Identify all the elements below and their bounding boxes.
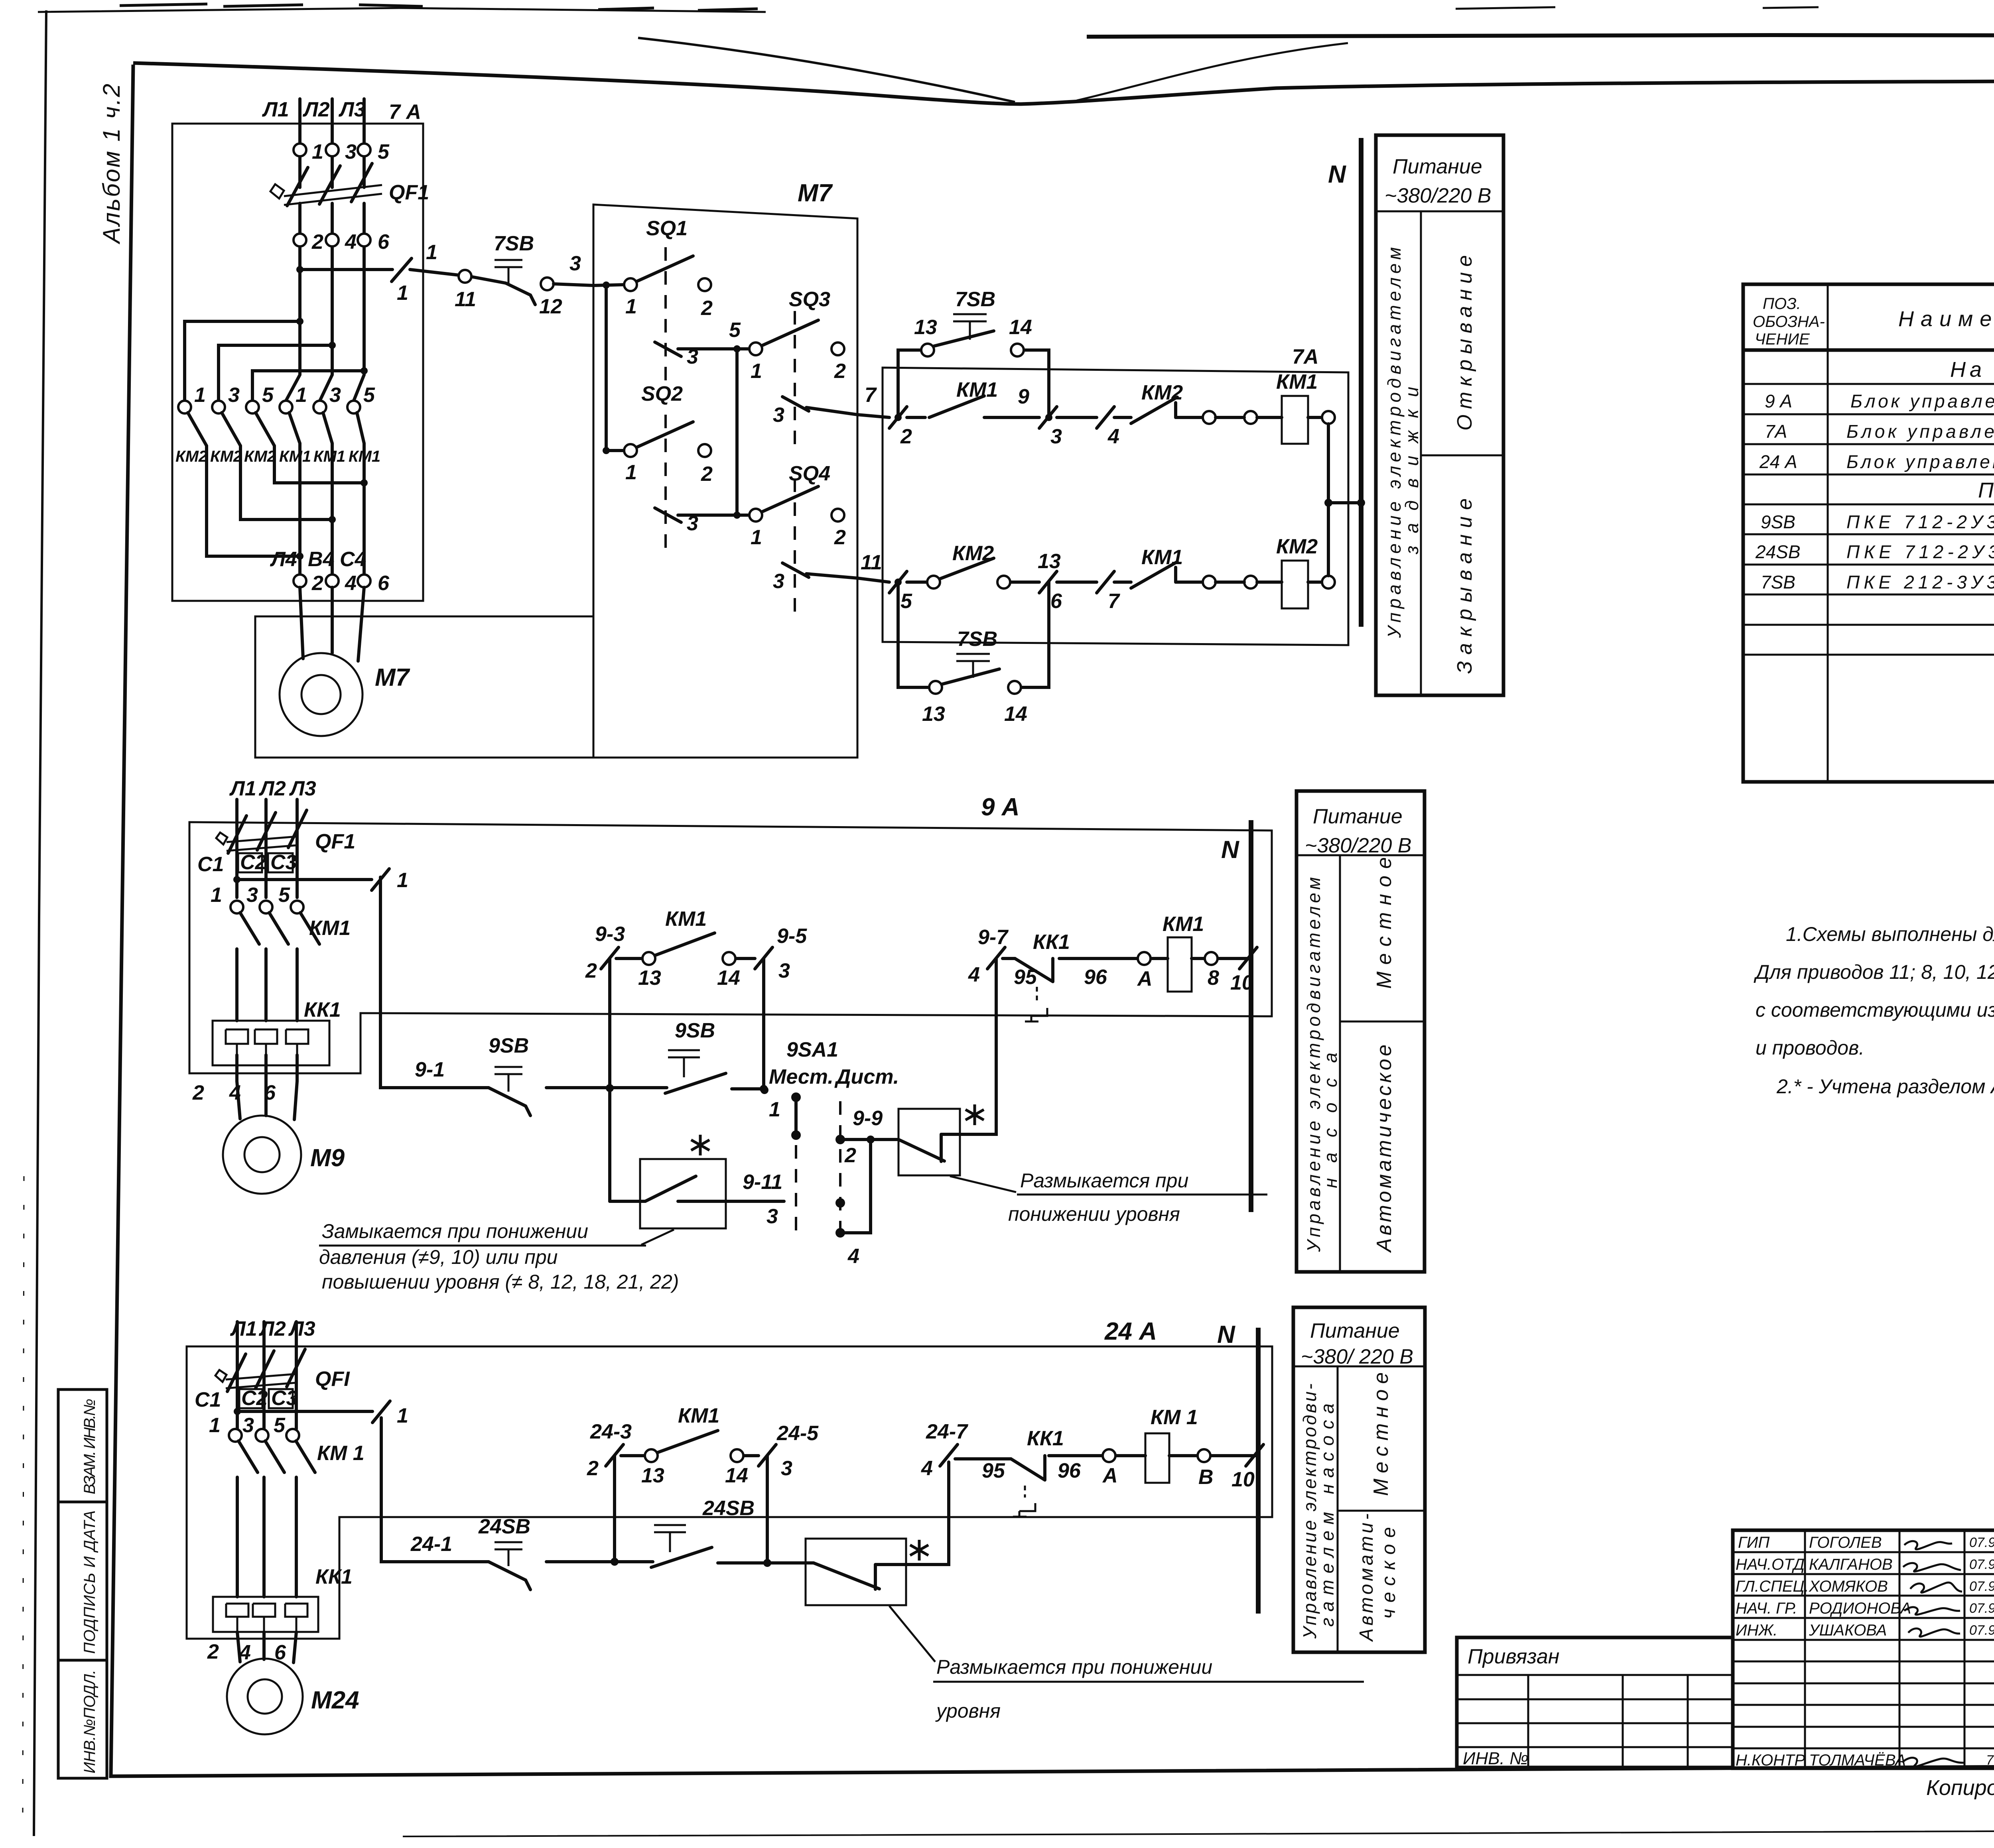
svg-text:6: 6 xyxy=(1050,590,1062,613)
svg-text:~380/220 В: ~380/220 В xyxy=(1305,834,1411,857)
svg-text:95: 95 xyxy=(982,1459,1005,1482)
svg-text:9SА1: 9SА1 xyxy=(786,1038,838,1061)
svg-text:1: 1 xyxy=(625,461,637,484)
svg-text:13: 13 xyxy=(638,966,661,990)
svg-text:2.* - Учтена разделом АВК.: 2.* - Учтена разделом АВК. xyxy=(1776,1075,1994,1098)
svg-text:1.Схемы выполнены для приво: 1.Схемы выполнены для приводов 7, 9, 24. xyxy=(1786,923,1994,945)
contactor main contacts bank KM2/KM1 xyxy=(175,318,390,595)
contact slash mark 1 xyxy=(392,258,412,281)
svg-text:2: 2 xyxy=(207,1640,219,1663)
svg-text:2: 2 xyxy=(900,425,912,448)
svg-text:14: 14 xyxy=(717,966,740,990)
svg-text:Размыкается при понижении: Размыкается при понижении xyxy=(936,1656,1212,1678)
svg-text:N: N xyxy=(1221,836,1239,864)
svg-text:2: 2 xyxy=(834,360,846,383)
coil row right part xyxy=(960,958,1251,1134)
svg-text:7SB: 7SB xyxy=(957,628,997,651)
svg-text:и проводов.: и проводов. xyxy=(1756,1037,1864,1059)
contact slash 2 xyxy=(889,407,907,428)
svg-text:Питание: Питание xyxy=(1313,805,1403,828)
motor M7 xyxy=(280,587,410,736)
svg-text:95: 95 xyxy=(1014,966,1037,989)
svg-text:1: 1 xyxy=(397,869,408,892)
svg-text:С4: С4 xyxy=(340,548,366,571)
svg-text:1: 1 xyxy=(751,526,762,549)
coil row right part xyxy=(955,1456,1258,1459)
svg-text:Л3: Л3 xyxy=(289,777,316,800)
contact slash mark 1 xyxy=(372,869,389,890)
neutral bus N (24А) xyxy=(1256,1328,1261,1614)
svg-text:11: 11 xyxy=(861,551,882,574)
svg-text:з а д в и ж к и: з а д в и ж к и xyxy=(1401,387,1422,555)
svg-text:С2: С2 xyxy=(240,851,267,874)
svg-text:Для приводов 11; 8, 10, 12,: Для приводов 11; 8, 10, 12, 18, 21, 22; … xyxy=(1754,961,1994,983)
wire SQ2 to SQ4 with riser xyxy=(678,349,750,515)
svg-text:КМ1: КМ1 xyxy=(665,907,707,931)
svg-text:7: 7 xyxy=(1108,590,1120,613)
svg-text:КМ 1: КМ 1 xyxy=(1151,1406,1198,1429)
svg-text:НАЧ.ОТД: НАЧ.ОТД xyxy=(1736,1556,1805,1573)
svg-text:13: 13 xyxy=(1038,550,1061,573)
svg-text:КМ2: КМ2 xyxy=(1141,381,1183,404)
svg-text:7А: 7А xyxy=(1765,421,1787,442)
junction dots on rail xyxy=(606,1084,614,1092)
svg-text:КМ2: КМ2 xyxy=(175,448,207,465)
cross wire c xyxy=(252,371,364,401)
svg-text:УШАКОВА: УШАКОВА xyxy=(1809,1622,1887,1639)
svg-text:Наименование: Наименование xyxy=(1898,307,1994,331)
copied-by line xyxy=(1926,1765,1994,1807)
circuit breaker QF1 xyxy=(284,185,382,205)
svg-text:13: 13 xyxy=(914,316,937,339)
terminal circle В xyxy=(1198,1449,1210,1462)
svg-text:24-3: 24-3 xyxy=(590,1420,632,1443)
svg-text:2: 2 xyxy=(585,959,597,982)
contact KM1 pole2 xyxy=(313,401,326,413)
svg-text:КК1: КК1 xyxy=(1033,931,1070,954)
svg-text:QF1: QF1 xyxy=(315,830,355,853)
svg-text:6: 6 xyxy=(378,572,390,595)
svg-text:24-1: 24-1 xyxy=(410,1533,452,1556)
contact slash 10 xyxy=(1246,1445,1263,1466)
svg-text:3: 3 xyxy=(778,959,790,982)
wire 11 out of box xyxy=(806,574,857,578)
svg-text:КМ1: КМ1 xyxy=(1163,913,1204,936)
svg-text:Н.КОНТР: Н.КОНТР xyxy=(1736,1752,1805,1769)
svg-text:3: 3 xyxy=(329,384,341,407)
svg-text:07.91: 07.91 xyxy=(1969,1601,1994,1616)
svg-text:24SВ: 24SВ xyxy=(702,1497,755,1520)
svg-text:Л1: Л1 xyxy=(229,777,256,800)
level switch box (opens on level drop, 9А) xyxy=(898,1109,960,1175)
pushbutton 7SB bypass (open row) xyxy=(898,350,1049,417)
svg-text:ГЛ.СПЕЦ.: ГЛ.СПЕЦ. xyxy=(1736,1578,1809,1595)
supply legend table (24А) xyxy=(1293,1307,1425,1652)
level switch box (opens on level drop) xyxy=(806,1539,906,1605)
supply legend table (9А) xyxy=(1296,791,1425,1272)
svg-text:4: 4 xyxy=(847,1245,859,1268)
svg-text:07.91: 07.91 xyxy=(1969,1535,1994,1550)
power block 7 enclosure xyxy=(172,124,423,601)
svg-text:С3: С3 xyxy=(270,851,297,874)
svg-text:КМ2: КМ2 xyxy=(244,448,276,465)
svg-text:9: 9 xyxy=(1018,385,1029,408)
wire coil return to N xyxy=(1328,424,1361,576)
svg-text:С1: С1 xyxy=(197,853,224,876)
wire 9-9 xyxy=(840,1138,898,1141)
svg-text:Блок управления Б5130-2874Г: Блок управления Б5130-2874Г УХЛ4 xyxy=(1850,391,1994,411)
svg-text:Открывание: Открывание xyxy=(1453,255,1476,431)
svg-text:Л2: Л2 xyxy=(258,777,286,800)
svg-text:2: 2 xyxy=(311,230,323,254)
svg-text:Автоматическое: Автоматическое xyxy=(1373,1045,1396,1253)
svg-text:Л3: Л3 xyxy=(338,98,366,121)
svg-text:5: 5 xyxy=(378,140,390,163)
svg-text:2: 2 xyxy=(701,462,713,486)
svg-text:24 А: 24 А xyxy=(1104,1318,1157,1345)
svg-text:Замыкается при понижении: Замыкается при понижении xyxy=(322,1220,588,1242)
paper bottom edge line xyxy=(403,1829,1994,1836)
svg-text:96: 96 xyxy=(1058,1459,1081,1482)
svg-text:3: 3 xyxy=(228,384,240,407)
contact KM2 pole3 xyxy=(246,401,259,413)
svg-text:5: 5 xyxy=(729,319,741,342)
paper fold artifact right wing xyxy=(1087,35,1994,37)
svg-text:10: 10 xyxy=(1231,1468,1255,1491)
svg-text:Питание: Питание xyxy=(1393,155,1482,178)
svg-text:13: 13 xyxy=(641,1464,664,1487)
wire phase L3 drop xyxy=(354,99,364,401)
svg-text:ОБОЗНА-: ОБОЗНА- xyxy=(1753,313,1825,331)
svg-text:КМ2: КМ2 xyxy=(1276,535,1318,558)
svg-text:7.91: 7.91 xyxy=(1986,1753,1994,1768)
contact slash 9-3 xyxy=(601,947,619,969)
svg-text:По месту: По месту xyxy=(1978,478,1994,502)
remote position line xyxy=(839,1101,841,1230)
valve limit switch box M7 xyxy=(593,179,857,758)
svg-text:7SВ: 7SВ xyxy=(494,232,534,255)
svg-text:Автомати-: Автомати- xyxy=(1356,1513,1377,1642)
contact KM1 pole1 xyxy=(280,401,292,413)
svg-text:КАЛГАНОВ: КАЛГАНОВ xyxy=(1809,1556,1893,1573)
signature table xyxy=(1733,1530,1994,1768)
svg-text:SQ3: SQ3 xyxy=(789,288,830,311)
svg-text:понижении уровня: понижении уровня xyxy=(1008,1203,1180,1225)
contact KM2 pole2 xyxy=(212,401,225,413)
wire 3 to box M7 xyxy=(554,284,593,285)
contact slash 24-5 xyxy=(759,1445,776,1466)
cross wire a xyxy=(185,321,300,401)
wire 1 from QF1 to 7SB xyxy=(300,270,506,283)
svg-text:М7: М7 xyxy=(375,664,410,691)
svg-text:24 А: 24 А xyxy=(1759,451,1797,472)
block 24А outline xyxy=(187,1346,1272,1639)
svg-text:Альбом 1 ч.2: Альбом 1 ч.2 xyxy=(98,84,125,244)
contact slash 5 xyxy=(889,571,907,593)
contact slash 7 xyxy=(1097,571,1114,593)
svg-text:2: 2 xyxy=(311,572,323,595)
block 9А outline xyxy=(189,822,1272,1073)
terminal circles before coil xyxy=(1203,411,1216,424)
svg-text:ГОГОЛЕВ: ГОГОЛЕВ xyxy=(1809,1534,1882,1551)
svg-text:96: 96 xyxy=(1084,966,1107,989)
svg-text:уровня: уровня xyxy=(935,1700,1001,1722)
svg-text:КМ1: КМ1 xyxy=(1141,546,1183,569)
svg-text:3: 3 xyxy=(773,403,784,427)
wire phase C drops xyxy=(237,799,297,897)
svg-text:Л1: Л1 xyxy=(230,1317,257,1340)
svg-text:QF1: QF1 xyxy=(389,181,429,204)
svg-text:КМ2: КМ2 xyxy=(210,448,242,465)
circuit breaker QF1 xyxy=(216,832,297,851)
svg-text:повышении уровня (≠ 8, 12, 18: повышении уровня (≠ 8, 12, 18, 21, 22) xyxy=(322,1271,679,1293)
svg-text:11: 11 xyxy=(455,288,476,311)
svg-text:9SВ: 9SВ xyxy=(675,1019,715,1042)
contact slash 6 xyxy=(1039,571,1057,593)
svg-text:3: 3 xyxy=(766,1205,778,1228)
svg-text:2: 2 xyxy=(587,1457,599,1480)
svg-text:Копировал: Сидорова: Копировал: Сидорова xyxy=(1926,1776,1994,1800)
svg-text:Размыкается при: Размыкается при xyxy=(1020,1169,1188,1192)
motor M24 xyxy=(237,1632,296,1663)
svg-text:М9: М9 xyxy=(310,1144,345,1172)
drawing frame xyxy=(133,63,1994,104)
wire phase C drops xyxy=(237,1322,296,1429)
terminal circle 8 xyxy=(1205,952,1218,965)
svg-text:3: 3 xyxy=(242,1414,254,1437)
pushbutton 7SB bypass (close row) xyxy=(898,582,1049,687)
terminal circle 11 xyxy=(459,270,471,283)
svg-text:КМ1: КМ1 xyxy=(1276,370,1318,394)
terminal circles before coil KM2 xyxy=(1203,576,1216,588)
svg-text:В: В xyxy=(1198,1466,1214,1489)
junction dots on rail xyxy=(611,1558,619,1566)
svg-text:А: А xyxy=(1102,1464,1118,1487)
aux contact row KM1 (self hold) xyxy=(610,958,764,1201)
svg-text:3: 3 xyxy=(246,884,258,907)
contact slash 10 xyxy=(1239,947,1257,969)
terminal circles 2 4 6 xyxy=(294,575,306,587)
svg-text:С1: С1 xyxy=(195,1388,221,1411)
svg-text:Л3: Л3 xyxy=(288,1317,315,1340)
svg-text:07.91: 07.91 xyxy=(1969,1623,1994,1638)
svg-text:N: N xyxy=(1217,1321,1235,1348)
wire 1 riser and rail 24-1 xyxy=(381,1418,814,1563)
svg-text:1: 1 xyxy=(751,360,762,383)
wire bus to slash 1 xyxy=(237,878,372,881)
svg-text:4: 4 xyxy=(968,963,980,986)
svg-text:ПКЕ 712-2У3 ТУ 16-642.006-8: ПКЕ 712-2У3 ТУ 16-642.006-83 xyxy=(1846,541,1994,562)
left margin dotted line xyxy=(23,1176,24,1818)
svg-text:КМ 1: КМ 1 xyxy=(317,1442,365,1465)
svg-text:1: 1 xyxy=(296,384,307,407)
svg-text:9-5: 9-5 xyxy=(777,925,807,948)
svg-text:НАЧ. ГР.: НАЧ. ГР. xyxy=(1736,1600,1797,1617)
svg-text:6: 6 xyxy=(378,230,390,254)
terminal circles 1 3 5 xyxy=(294,144,306,156)
svg-text:7А: 7А xyxy=(1292,345,1318,368)
svg-text:КК1: КК1 xyxy=(315,1565,353,1588)
wire 7 out of box xyxy=(806,407,857,415)
svg-text:ПОДПИСЬ И ДАТА: ПОДПИСЬ И ДАТА xyxy=(81,1510,99,1654)
control block 7А xyxy=(857,288,1365,726)
paper fold artifact left wing xyxy=(638,38,1015,102)
svg-text:ИНВ. №: ИНВ. № xyxy=(1463,1749,1529,1768)
svg-text:А: А xyxy=(1137,967,1153,990)
svg-text:14: 14 xyxy=(1009,316,1032,339)
svg-text:2: 2 xyxy=(192,1081,204,1104)
svg-text:ПКЕ 212-3У3 ТУ 16-642.006-83: ПКЕ 212-3У3 ТУ 16-642.006-83 xyxy=(1846,572,1994,592)
svg-text:КМ1: КМ1 xyxy=(279,448,311,465)
svg-text:КК1: КК1 xyxy=(1027,1427,1064,1450)
svg-text:В4: В4 xyxy=(308,548,335,571)
svg-text:КМ1: КМ1 xyxy=(313,448,345,465)
svg-text:1: 1 xyxy=(426,241,437,264)
svg-text:Мест.: Мест. xyxy=(769,1065,833,1088)
terminal circle 12 xyxy=(541,277,554,290)
svg-text:ИНВ.№ПОДЛ.: ИНВ.№ПОДЛ. xyxy=(81,1670,99,1773)
svg-text:ХОМЯКОВ: ХОМЯКОВ xyxy=(1809,1578,1888,1595)
svg-text:1: 1 xyxy=(211,884,222,907)
contact KM1 pole3 xyxy=(347,401,360,413)
svg-text:24-5: 24-5 xyxy=(776,1422,819,1445)
svg-text:7 А: 7 А xyxy=(389,100,421,124)
svg-text:М7: М7 xyxy=(798,179,833,207)
terminal circle А xyxy=(1103,1449,1115,1462)
svg-text:9SВ: 9SВ xyxy=(489,1034,529,1057)
attachment box Привязан xyxy=(1457,1637,1733,1767)
svg-text:8: 8 xyxy=(1208,966,1219,990)
svg-text:3: 3 xyxy=(569,252,581,275)
signatures squiggles xyxy=(1904,1541,1952,1549)
svg-text:Л4: Л4 xyxy=(270,548,297,571)
contact KM2 pole1 xyxy=(178,401,191,413)
svg-text:С2: С2 xyxy=(241,1387,268,1410)
svg-text:1: 1 xyxy=(194,384,206,407)
wire open row xyxy=(857,415,1203,417)
svg-text:24SВ: 24SВ xyxy=(478,1515,530,1538)
leader line 9А xyxy=(950,1176,1016,1192)
paper left edge line xyxy=(34,10,46,1836)
svg-text:9-1: 9-1 xyxy=(415,1058,445,1081)
svg-text:5: 5 xyxy=(262,384,274,407)
svg-text:12: 12 xyxy=(539,295,562,318)
neutral bus N (top section) xyxy=(1359,138,1363,627)
svg-text:2: 2 xyxy=(701,297,713,320)
terminal circles 2 4 6 xyxy=(294,234,306,246)
wire SQ1 to SQ3 xyxy=(678,347,750,350)
svg-text:КК1: КК1 xyxy=(304,998,341,1021)
svg-text:9-11: 9-11 xyxy=(743,1171,782,1194)
wire phase L2 drop xyxy=(320,99,332,401)
motor enclosure box xyxy=(255,616,857,758)
svg-text:с соответствующими изменениям: с соответствующими изменениями маркировк… xyxy=(1756,999,1994,1021)
svg-text:14: 14 xyxy=(725,1464,748,1487)
svg-text:SQ2: SQ2 xyxy=(641,382,683,405)
circuit breaker QF1 xyxy=(215,1370,296,1388)
svg-text:9 А: 9 А xyxy=(981,793,1019,821)
terminal circle А xyxy=(1138,952,1151,965)
svg-text:ПОЗ.: ПОЗ. xyxy=(1763,295,1801,313)
contact slash mark 1 xyxy=(372,1401,390,1423)
svg-text:14: 14 xyxy=(1004,703,1027,726)
svg-text:ТОЛМАЧЁВА: ТОЛМАЧЁВА xyxy=(1809,1752,1906,1769)
svg-text:Блок управления Б5130-2974 Г: Блок управления Б5130-2974 Г УХЛ4 xyxy=(1846,451,1994,472)
pressure switch box (closes on pressure drop) xyxy=(640,1159,726,1228)
contact slash 24-3 xyxy=(606,1445,623,1466)
svg-text:07.91: 07.91 xyxy=(1969,1579,1994,1594)
svg-text:С3: С3 xyxy=(271,1387,298,1410)
svg-text:1: 1 xyxy=(625,295,637,318)
svg-text:4: 4 xyxy=(345,572,357,595)
svg-text:Л2: Л2 xyxy=(302,98,330,121)
terminal circles 1 3 5 xyxy=(229,1429,242,1442)
contact slash 3 xyxy=(1039,407,1057,428)
svg-text:4: 4 xyxy=(345,230,357,254)
svg-text:ЧЕНИЕ: ЧЕНИЕ xyxy=(1755,331,1810,348)
terminal circles 1 3 5 xyxy=(231,901,243,913)
wire phase L1 drop xyxy=(286,99,300,401)
svg-text:SQ1: SQ1 xyxy=(646,217,688,240)
supply legend table (top) xyxy=(1376,135,1503,695)
aux contact row KM1 (self hold) xyxy=(615,1456,767,1563)
svg-text:3: 3 xyxy=(781,1457,792,1480)
svg-text:Питание: Питание xyxy=(1310,1319,1400,1342)
svg-text:1: 1 xyxy=(397,1404,408,1427)
svg-text:ГИП: ГИП xyxy=(1738,1534,1770,1551)
wire close row xyxy=(857,578,1203,582)
svg-text:2: 2 xyxy=(844,1144,856,1167)
svg-text:9SВ: 9SВ xyxy=(1761,512,1795,532)
motor M9 xyxy=(237,1081,297,1120)
svg-text:24-7: 24-7 xyxy=(926,1420,968,1443)
svg-text:~380/ 220 В: ~380/ 220 В xyxy=(1301,1345,1413,1368)
svg-text:Блок управления Б5437-3074 У: Блок управления Б5437-3074 УХЛ4 xyxy=(1846,421,1994,442)
svg-text:3: 3 xyxy=(773,570,784,593)
svg-text:07.91: 07.91 xyxy=(1969,1557,1994,1572)
contact slash 9-7 xyxy=(987,947,1005,969)
svg-text:~380/220 В: ~380/220 В xyxy=(1385,184,1491,207)
svg-text:давления (≠9, 10) или при: давления (≠9, 10) или при xyxy=(319,1246,558,1268)
svg-text:гателем насоса: гателем насоса xyxy=(1317,1403,1338,1627)
svg-text:1: 1 xyxy=(397,281,408,305)
svg-text:9 А: 9 А xyxy=(1765,391,1792,411)
svg-text:Л1: Л1 xyxy=(262,98,289,121)
svg-text:4: 4 xyxy=(921,1457,933,1480)
svg-text:5: 5 xyxy=(274,1414,286,1437)
wire down to SQ2 xyxy=(606,285,625,451)
neutral bus N (9А) xyxy=(1249,820,1253,1212)
svg-text:7SB: 7SB xyxy=(955,288,995,311)
svg-text:2: 2 xyxy=(834,526,846,549)
contact slash 4 xyxy=(1097,407,1114,428)
svg-text:5: 5 xyxy=(363,384,375,407)
cross wire b xyxy=(219,345,332,401)
svg-text:ПКЕ 712-2У3 ТУ 16-642.006-8: ПКЕ 712-2У3 ТУ 16-642.006-83 xyxy=(1846,512,1994,532)
svg-text:1: 1 xyxy=(312,140,323,163)
left frame stamp column xyxy=(58,1389,107,1778)
wire 1 riser and rail 9-1 xyxy=(380,877,764,1089)
svg-text:7: 7 xyxy=(865,384,877,407)
svg-text:М24: М24 xyxy=(311,1687,359,1714)
local position contact xyxy=(794,1097,798,1135)
svg-text:Управление электродвигателем: Управление электродвигателем xyxy=(1303,877,1324,1252)
svg-text:4: 4 xyxy=(1107,425,1119,448)
svg-text:Дист.: Дист. xyxy=(834,1065,899,1088)
svg-text:1: 1 xyxy=(769,1098,780,1121)
svg-text:3: 3 xyxy=(345,140,357,163)
wire into box junction xyxy=(593,285,624,285)
